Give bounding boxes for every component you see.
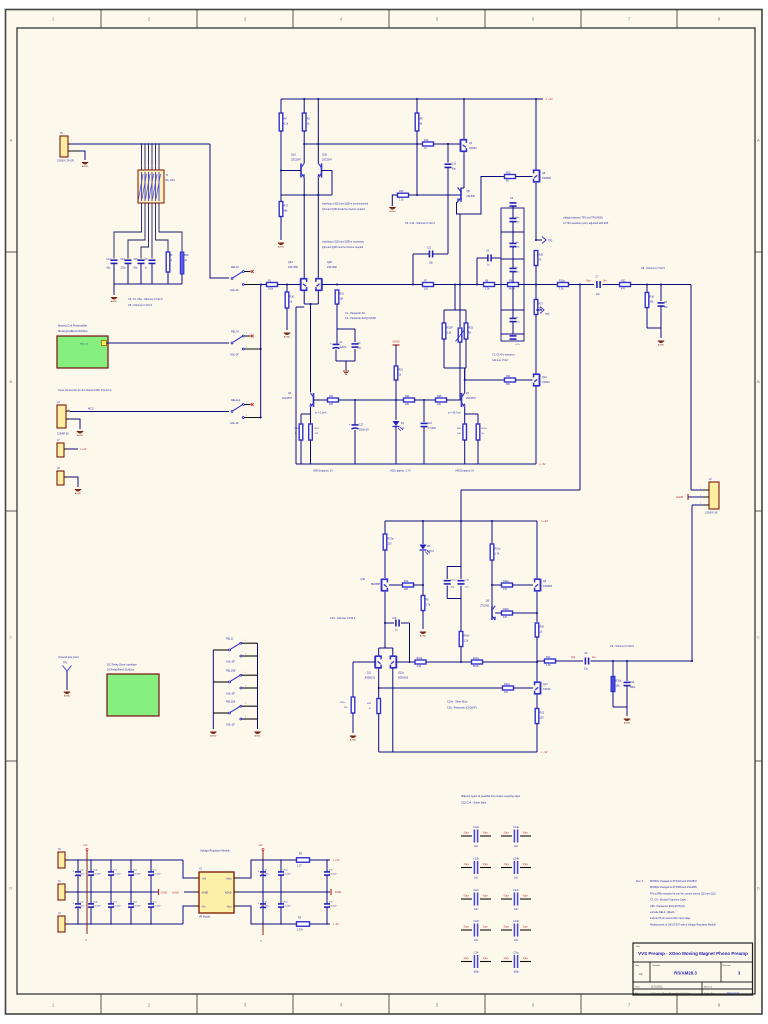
svg-text:C14d: C14d bbox=[513, 920, 519, 923]
svg-text:V(R20) approx 1V: V(R20) approx 1V bbox=[455, 470, 475, 473]
svg-text:C13: C13 bbox=[107, 259, 112, 261]
svg-text:AGND: AGND bbox=[392, 341, 399, 344]
svg-text:0(a)+: 0(a)+ bbox=[523, 832, 529, 834]
svg-text:Q13: Q13 bbox=[543, 683, 548, 686]
svg-text:470: 470 bbox=[504, 691, 509, 694]
svg-text:AGND: AGND bbox=[210, 735, 217, 738]
svg-text:R20a: R20a bbox=[482, 428, 488, 430]
svg-text:REL11A: REL11A bbox=[231, 399, 240, 402]
svg-text:0(a)+: 0(a)+ bbox=[586, 281, 592, 283]
svg-text:R22a: R22a bbox=[503, 580, 509, 583]
svg-text:R27: R27 bbox=[539, 303, 544, 306]
svg-text:Ground test point: Ground test point bbox=[58, 655, 79, 659]
svg-text:220p: 220p bbox=[121, 268, 127, 270]
svg-text:100: 100 bbox=[424, 288, 429, 291]
svg-text:0.775V operation point, adjust: 0.775V operation point, adjusted with R2… bbox=[563, 222, 609, 225]
svg-text:C16b: C16b bbox=[93, 902, 99, 904]
svg-text:R22: R22 bbox=[329, 395, 334, 398]
svg-text:Sheet of: Sheet of bbox=[704, 985, 713, 988]
svg-text:0(a)+: 0(a)+ bbox=[504, 864, 510, 866]
svg-text:0(a)+: 0(a)+ bbox=[523, 958, 529, 960]
svg-text:AGND: AGND bbox=[350, 739, 357, 742]
svg-text:1: 1 bbox=[245, 672, 246, 674]
svg-text:0(a)+: 0(a)+ bbox=[483, 832, 489, 834]
svg-text:0(a)+: 0(a)+ bbox=[464, 958, 470, 960]
svg-text:1.5u50V: 1.5u50V bbox=[283, 906, 291, 908]
svg-text:C16b: C16b bbox=[93, 870, 99, 872]
svg-text:C5 - Glimmer CY22.3: C5 - Glimmer CY22.3 bbox=[128, 304, 153, 307]
svg-text:2.2u50V: 2.2u50V bbox=[133, 874, 141, 876]
svg-text:4: 4 bbox=[246, 415, 247, 417]
svg-text:C12c: C12c bbox=[473, 889, 479, 892]
svg-text:AGND: AGND bbox=[389, 210, 396, 213]
svg-text:C10a: C10a bbox=[283, 902, 289, 904]
svg-text:C19 - Glimmer CY22.5: C19 - Glimmer CY22.5 bbox=[330, 617, 356, 620]
svg-text:10PV1: 10PV1 bbox=[427, 551, 435, 553]
svg-text:+Vb: +Vb bbox=[83, 844, 88, 847]
svg-text:4: 4 bbox=[245, 717, 246, 719]
svg-text:c +4V: c +4V bbox=[333, 859, 340, 862]
svg-text:C10a: C10a bbox=[283, 870, 289, 872]
svg-text:DC Relay Drive Interface: DC Relay Drive Interface bbox=[107, 662, 137, 666]
svg-text:0(a)+: 0(a)+ bbox=[504, 958, 510, 960]
svg-text:Ic = 66.7mA: Ic = 66.7mA bbox=[448, 412, 461, 415]
svg-text:2.27k: 2.27k bbox=[297, 929, 304, 932]
svg-text:10u: 10u bbox=[474, 845, 479, 848]
svg-text:1: 1 bbox=[246, 333, 247, 335]
svg-text:A2: A2 bbox=[639, 972, 643, 976]
svg-text:Input Connector for the Second: Input Connector for the Second MC Pre Am… bbox=[58, 388, 112, 392]
svg-text:Revision: Revision bbox=[723, 965, 732, 967]
svg-text:86.6k: 86.6k bbox=[473, 665, 480, 668]
svg-text:exclude REL9 - REL11: exclude REL9 - REL11 bbox=[650, 911, 675, 914]
svg-text:4: 4 bbox=[246, 347, 247, 349]
svg-text:2.2u50V: 2.2u50V bbox=[113, 906, 121, 908]
svg-text:AGND: AGND bbox=[420, 635, 427, 638]
svg-text:Q2A: Q2A bbox=[288, 261, 293, 264]
svg-text:0a+: 0a+ bbox=[603, 281, 608, 283]
svg-text:AGND: AGND bbox=[676, 496, 683, 499]
svg-text:V(R19) approx. 1V: V(R19) approx. 1V bbox=[313, 470, 333, 473]
svg-text:AGND: AGND bbox=[202, 892, 209, 895]
svg-text:D: D bbox=[9, 886, 12, 891]
svg-text:R7a & R8b excluded to turn the: R7a & R8b excluded to turn the current s… bbox=[650, 892, 716, 895]
svg-text:matching of Q2A and Q2B is nec: matching of Q2A and Q2B is necessary bbox=[322, 241, 365, 244]
svg-text:Number: Number bbox=[653, 964, 661, 967]
svg-text:AGND: AGND bbox=[172, 892, 179, 895]
svg-text:c +4V: c +4V bbox=[541, 519, 548, 523]
svg-text:Q14: Q14 bbox=[542, 376, 547, 379]
svg-text:matching of Q1A and Q1B is rec: matching of Q1A and Q1B is recommended bbox=[322, 203, 369, 206]
svg-text:R22b: R22b bbox=[503, 608, 509, 611]
svg-text:C: C bbox=[9, 635, 12, 640]
svg-text:REL11: REL11 bbox=[226, 638, 234, 641]
svg-text:BSDN103: BSDN103 bbox=[365, 678, 376, 680]
svg-text:MC Out: MC Out bbox=[80, 343, 88, 346]
svg-text:CON5-F 2F-GR: CON5-F 2F-GR bbox=[57, 160, 74, 163]
svg-text:C14b: C14b bbox=[513, 857, 519, 860]
svg-text:VR Module: VR Module bbox=[199, 917, 211, 919]
svg-text:B: B bbox=[9, 379, 12, 384]
svg-text:Q11: Q11 bbox=[367, 673, 372, 675]
svg-text:4: 4 bbox=[246, 282, 247, 284]
svg-text:220: 220 bbox=[405, 403, 410, 406]
svg-text:REL10B: REL10B bbox=[226, 670, 236, 673]
svg-text:0a+: 0a+ bbox=[592, 657, 597, 659]
svg-text:Q1A and Q1B should be thermo c: Q1A and Q1B should be thermo coupled bbox=[322, 208, 366, 211]
svg-text:10u: 10u bbox=[474, 908, 479, 911]
svg-text:AGND: AGND bbox=[225, 892, 232, 895]
svg-text:Q2A and Q2B must be thermo cou: Q2A and Q2B must be thermo coupled bbox=[322, 246, 364, 249]
svg-text:1M: 1M bbox=[340, 298, 343, 301]
svg-text:220u6.3V: 220u6.3V bbox=[359, 430, 369, 432]
svg-text:MovingCoilRev3.SchDoc: MovingCoilRev3.SchDoc bbox=[58, 329, 88, 333]
svg-text:TP2: TP2 bbox=[548, 240, 553, 243]
svg-text:voltage between TP2 and TP3 (R: voltage between TP2 and TP3 (R26): bbox=[563, 217, 603, 220]
svg-text:0(a)+: 0(a)+ bbox=[464, 864, 470, 866]
svg-text:BSDN103: BSDN103 bbox=[398, 678, 409, 680]
svg-text:4: 4 bbox=[245, 686, 246, 688]
svg-text:2SL635: 2SL635 bbox=[467, 195, 476, 198]
svg-text:Replacement of LM317/337 with: Replacement of LM317/337 with a Voltage … bbox=[650, 923, 716, 926]
svg-text:220: 220 bbox=[540, 717, 545, 720]
svg-text:REL7A: REL7A bbox=[231, 331, 239, 334]
svg-text:Q1A: Q1A bbox=[291, 154, 296, 157]
svg-text:BC560C changed to ZTX558 and 2: BC560C changed to ZTX558 and 2SA1085 bbox=[650, 886, 697, 889]
svg-text:C16 - Panasonic ECQ(GF): C16 - Panasonic ECQ(GF) bbox=[447, 707, 477, 710]
svg-text:1.7k: 1.7k bbox=[426, 604, 431, 607]
svg-text:REL10: REL10 bbox=[231, 266, 239, 269]
svg-text:0(a)+: 0(a)+ bbox=[464, 926, 470, 928]
svg-text:100p: 100p bbox=[473, 971, 479, 974]
svg-text:220: 220 bbox=[404, 588, 409, 591]
svg-text:2.2u50V: 2.2u50V bbox=[153, 906, 161, 908]
svg-text:+4V: +4V bbox=[258, 844, 263, 847]
svg-text:c -4V: c -4V bbox=[541, 750, 548, 754]
svg-text:D: D bbox=[757, 886, 760, 891]
svg-text:Q12a: Q12a bbox=[398, 673, 404, 675]
svg-text:R32: R32 bbox=[621, 279, 626, 282]
svg-text:R21a: R21a bbox=[495, 548, 501, 551]
svg-text:2SC2547: 2SC2547 bbox=[466, 397, 477, 400]
svg-text:R27a: R27a bbox=[340, 702, 346, 704]
svg-text:C17: C17 bbox=[359, 425, 364, 427]
svg-text:CON9F-2K: CON9F-2K bbox=[57, 433, 69, 436]
svg-text:Ic = 2.1mA: Ic = 2.1mA bbox=[315, 412, 327, 415]
svg-text:CON9 F-3K: CON9 F-3K bbox=[705, 512, 718, 515]
svg-text:R23: R23 bbox=[469, 327, 474, 330]
svg-text:C14c: C14c bbox=[513, 889, 519, 892]
svg-text:1: 1 bbox=[245, 703, 246, 705]
svg-text:0(a)+: 0(a)+ bbox=[523, 926, 529, 928]
svg-text:C10: C10 bbox=[630, 682, 635, 684]
svg-text:1: 1 bbox=[245, 640, 246, 642]
svg-text:2SK746K: 2SK746K bbox=[327, 266, 338, 269]
svg-text:C18: C18 bbox=[428, 423, 433, 425]
svg-text:R24: R24 bbox=[405, 395, 410, 398]
svg-text:R11: R11 bbox=[340, 293, 345, 296]
svg-text:R10: R10 bbox=[290, 296, 295, 299]
svg-text:RF_JW1: RF_JW1 bbox=[166, 179, 176, 182]
svg-text:R23P: R23P bbox=[447, 327, 453, 330]
svg-text:R31: R31 bbox=[506, 375, 511, 378]
svg-text:R14: R14 bbox=[404, 580, 409, 583]
svg-text:C15a: C15a bbox=[451, 580, 457, 582]
svg-text:GAL-2F: GAL-2F bbox=[226, 724, 235, 727]
svg-text:0(a)+: 0(a)+ bbox=[483, 926, 489, 928]
svg-text:MC2: MC2 bbox=[88, 407, 94, 411]
svg-text:0(a)+: 0(a)+ bbox=[464, 895, 470, 897]
svg-text:C12,C14 - Silver Mica: C12,C14 - Silver Mica bbox=[461, 801, 487, 805]
svg-text:GAL-2F: GAL-2F bbox=[230, 289, 239, 292]
svg-text:1.2k: 1.2k bbox=[399, 198, 404, 201]
svg-text:Q10: Q10 bbox=[360, 578, 365, 581]
svg-text:Λ: Λ bbox=[85, 938, 87, 942]
svg-text:R5b: R5b bbox=[185, 255, 190, 257]
svg-text:4: 4 bbox=[245, 654, 246, 656]
svg-text:1.5u50V: 1.5u50V bbox=[283, 874, 291, 876]
svg-text:KSP40: KSP40 bbox=[542, 381, 550, 384]
svg-text:C12d: C12d bbox=[473, 920, 479, 923]
svg-text:R25: R25 bbox=[437, 395, 442, 398]
svg-text:R17: R17 bbox=[284, 205, 289, 208]
svg-text:+Vin: +Vin bbox=[202, 879, 207, 881]
svg-text:-Vout: -Vout bbox=[226, 906, 232, 909]
svg-text:C98 - Panasonic ECQ ECHU(X): C98 - Panasonic ECQ ECHU(X) bbox=[650, 905, 685, 908]
svg-text:2.2u50V: 2.2u50V bbox=[93, 906, 101, 908]
svg-text:R12a: R12a bbox=[473, 657, 479, 660]
svg-text:2SC2547: 2SC2547 bbox=[291, 159, 302, 162]
svg-text:AGND: AGND bbox=[111, 300, 118, 303]
svg-text:GAL-2F: GAL-2F bbox=[230, 354, 239, 357]
svg-text:KSP40: KSP40 bbox=[543, 688, 551, 691]
svg-text:BSR58P: BSR58P bbox=[371, 583, 381, 586]
svg-text:AGND: AGND bbox=[75, 492, 82, 495]
svg-text:R13a: R13a bbox=[559, 279, 565, 282]
svg-text:0(a)+: 0(a)+ bbox=[483, 958, 489, 960]
svg-text:C12b: C12b bbox=[473, 857, 479, 860]
svg-text:220: 220 bbox=[329, 403, 334, 406]
svg-text:2.2u50V: 2.2u50V bbox=[113, 874, 121, 876]
svg-text:AGND: AGND bbox=[658, 344, 665, 347]
svg-text:470: 470 bbox=[503, 588, 508, 591]
svg-text:R26: R26 bbox=[539, 254, 544, 257]
svg-text:C3, C4, C5a - Glimmer CY22.2: C3, C4, C5a - Glimmer CY22.2 bbox=[128, 298, 163, 301]
svg-text:0(a)+: 0(a)+ bbox=[523, 864, 529, 866]
svg-text:TP3: TP3 bbox=[545, 313, 550, 316]
svg-text:ZTX2N5: ZTX2N5 bbox=[480, 605, 490, 608]
svg-text:R21: R21 bbox=[399, 369, 404, 372]
svg-text:AGND: AGND bbox=[161, 892, 168, 895]
svg-text:DCRelayRev3.SchDoc: DCRelayRev3.SchDoc bbox=[107, 668, 135, 672]
svg-text:KSD965: KSD965 bbox=[543, 585, 553, 588]
svg-text:R12: R12 bbox=[424, 139, 429, 142]
svg-text:AGND: AGND bbox=[284, 336, 291, 339]
svg-text:2SC2547: 2SC2547 bbox=[282, 397, 293, 400]
svg-text:100p: 100p bbox=[513, 971, 519, 974]
svg-text:B: B bbox=[757, 379, 760, 384]
svg-text:1.5k: 1.5k bbox=[485, 288, 490, 291]
svg-text:include P6 for second MC input: include P6 for second MC input stage bbox=[650, 917, 691, 920]
svg-text:C14: C14 bbox=[474, 951, 479, 954]
svg-text:0(a)+: 0(a)+ bbox=[483, 895, 489, 897]
svg-text:Rev. 3: Rev. 3 bbox=[636, 880, 644, 883]
svg-text:C14: C14 bbox=[121, 259, 126, 261]
svg-text:1u50V: 1u50V bbox=[340, 347, 347, 349]
svg-text:R16: R16 bbox=[650, 296, 655, 299]
svg-text:2SK746K: 2SK746K bbox=[288, 266, 299, 269]
svg-text:100: 100 bbox=[437, 403, 442, 406]
svg-text:R19a: R19a bbox=[295, 428, 301, 430]
svg-text:c +4V: c +4V bbox=[80, 448, 87, 451]
svg-text:Voltage Regulator Module: Voltage Regulator Module bbox=[200, 849, 230, 853]
svg-text:0(a)+: 0(a)+ bbox=[483, 864, 489, 866]
svg-text:AGND: AGND bbox=[64, 695, 71, 698]
svg-text:1.5k: 1.5k bbox=[417, 665, 422, 668]
svg-text:220: 220 bbox=[388, 543, 393, 546]
svg-text:R31: R31 bbox=[540, 712, 545, 715]
svg-text:c -4V: c -4V bbox=[539, 462, 546, 466]
svg-text:21.01.2012: 21.01.2012 bbox=[651, 986, 663, 988]
svg-text:Q1B: Q1B bbox=[322, 154, 327, 157]
svg-text:KSD965: KSD965 bbox=[542, 177, 552, 180]
svg-text:C1 - Panasonic SC: C1 - Panasonic SC bbox=[345, 312, 366, 315]
svg-text:C5, C13 - Glimmer CY22.2: C5, C13 - Glimmer CY22.2 bbox=[405, 222, 435, 225]
svg-text:AGND: AGND bbox=[254, 735, 261, 738]
svg-text:680: 680 bbox=[506, 383, 511, 386]
svg-text:2.2k: 2.2k bbox=[447, 332, 452, 335]
svg-text:c -4V: c -4V bbox=[333, 923, 339, 926]
svg-text:R20b: R20b bbox=[464, 635, 470, 638]
svg-text:AGND: AGND bbox=[77, 434, 84, 437]
svg-text:R16a: R16a bbox=[417, 657, 423, 660]
svg-text:c +4V: c +4V bbox=[546, 97, 553, 101]
svg-text:Q2B: Q2B bbox=[327, 261, 332, 264]
svg-text:R30a: R30a bbox=[504, 683, 510, 686]
svg-text:2SC2547: 2SC2547 bbox=[322, 159, 333, 162]
svg-text:470: 470 bbox=[621, 288, 626, 291]
svg-text:C7, C9 - Mundorf Supreme Caps: C7, C9 - Mundorf Supreme Caps bbox=[650, 899, 686, 902]
svg-text:C: C bbox=[757, 635, 760, 640]
svg-text:A: A bbox=[757, 138, 760, 143]
svg-text:R30: R30 bbox=[540, 626, 545, 629]
svg-text:2.2u50V: 2.2u50V bbox=[93, 874, 101, 876]
svg-text:1: 1 bbox=[246, 269, 247, 271]
svg-text:R13: R13 bbox=[546, 656, 551, 659]
svg-text:1.5k: 1.5k bbox=[546, 664, 551, 667]
svg-text:C8 - Glimmer CY22.5: C8 - Glimmer CY22.5 bbox=[641, 267, 666, 270]
svg-text:1.7k: 1.7k bbox=[495, 553, 500, 556]
svg-text:Drawn By:: Drawn By: bbox=[704, 992, 714, 995]
svg-text:10u: 10u bbox=[474, 877, 479, 880]
svg-text:2.2u50V: 2.2u50V bbox=[153, 874, 161, 876]
svg-text:1: 1 bbox=[246, 402, 247, 404]
svg-text:C16c: C16c bbox=[513, 951, 519, 954]
svg-text:C:\Users\..\MovingMagnetRev3.S: C:\Users\..\MovingMagnetRev3.SchDoc bbox=[651, 992, 691, 995]
svg-text:C12a: C12a bbox=[473, 826, 479, 829]
svg-text:V(D1) approx. 1.7V: V(D1) approx. 1.7V bbox=[390, 470, 411, 473]
svg-text:10u: 10u bbox=[514, 908, 519, 911]
svg-text:AGND: AGND bbox=[82, 165, 89, 168]
svg-text:C2 - Panasonic ECQ(U(X)NF: C2 - Panasonic ECQ(U(X)NF bbox=[345, 317, 377, 320]
svg-text:RS/AM28.3: RS/AM28.3 bbox=[674, 971, 697, 976]
svg-text:R17a: R17a bbox=[388, 538, 394, 541]
svg-text:GAL-2F: GAL-2F bbox=[230, 422, 239, 425]
svg-text:Roger Gust: Roger Gust bbox=[727, 992, 740, 995]
svg-text:1.5k: 1.5k bbox=[559, 288, 564, 291]
svg-text:6.2k: 6.2k bbox=[284, 123, 289, 126]
svg-text:2.2u50V: 2.2u50V bbox=[133, 906, 141, 908]
svg-text:10u: 10u bbox=[514, 845, 519, 848]
svg-text:C1, C6 47u tolerance: C1, C6 47u tolerance bbox=[492, 354, 515, 357]
svg-text:1.5u50V: 1.5u50V bbox=[329, 906, 337, 908]
svg-text:0(a)+: 0(a)+ bbox=[504, 832, 510, 834]
svg-text:Moving Coil Preamplifier: Moving Coil Preamplifier bbox=[58, 324, 87, 328]
svg-text:C13: C13 bbox=[452, 164, 457, 166]
svg-text:+Vout: +Vout bbox=[226, 878, 232, 881]
svg-text:1.5u50V: 1.5u50V bbox=[329, 874, 337, 876]
svg-text:0(a)+: 0(a)+ bbox=[504, 926, 510, 928]
svg-text:100k: 100k bbox=[268, 288, 274, 291]
svg-text:R15: R15 bbox=[399, 190, 404, 193]
svg-text:10u: 10u bbox=[514, 877, 519, 880]
svg-text:2.2k: 2.2k bbox=[464, 640, 469, 643]
svg-text:GAL-2F: GAL-2F bbox=[226, 693, 235, 696]
svg-text:R13: R13 bbox=[506, 171, 511, 174]
svg-text:4.7u63V: 4.7u63V bbox=[428, 428, 437, 430]
svg-text:0(a)+: 0(a)+ bbox=[523, 895, 529, 897]
svg-text:10u: 10u bbox=[474, 939, 479, 942]
svg-text:C14a: C14a bbox=[513, 826, 519, 829]
svg-text:KSP94: KSP94 bbox=[469, 147, 477, 150]
svg-text:AGND: AGND bbox=[624, 722, 631, 725]
svg-text:R15a: R15a bbox=[616, 680, 622, 683]
svg-text:BC550C changed to ZTX109 and 2: BC550C changed to ZTX109 and 2SC2547 bbox=[650, 880, 698, 883]
svg-text:C16a - Silver Mica: C16a - Silver Mica bbox=[447, 701, 468, 704]
svg-text:10u: 10u bbox=[514, 939, 519, 942]
svg-text:REL11B: REL11B bbox=[226, 701, 235, 704]
svg-text:C9 - Glimmer CY22.5: C9 - Glimmer CY22.5 bbox=[610, 645, 635, 648]
svg-text:0(a): 0(a) bbox=[571, 657, 575, 659]
svg-text:A: A bbox=[9, 138, 12, 143]
svg-text:Λ: Λ bbox=[260, 939, 262, 943]
svg-text:Date: Date bbox=[635, 985, 640, 988]
svg-text:Glimmer CY22: Glimmer CY22 bbox=[492, 359, 508, 362]
svg-text:470: 470 bbox=[503, 616, 508, 619]
svg-text:2.2?: 2.2? bbox=[297, 865, 302, 868]
svg-text:0(a)+: 0(a)+ bbox=[504, 895, 510, 897]
svg-text:GAL-2F: GAL-2F bbox=[226, 661, 235, 664]
svg-text:different types of possible 10: different types of possible 10u output c… bbox=[461, 794, 521, 798]
svg-text:AGND: AGND bbox=[278, 246, 285, 249]
svg-text:C15: C15 bbox=[134, 259, 139, 261]
svg-text:AGND: AGND bbox=[335, 891, 342, 894]
svg-text:680p: 680p bbox=[630, 687, 636, 689]
svg-text:86.6k: 86.6k bbox=[509, 288, 516, 291]
svg-text:TP1: TP1 bbox=[63, 662, 68, 665]
svg-text:0(a)+: 0(a)+ bbox=[464, 832, 470, 834]
svg-text:VVS Preamp - XOno Moving Magne: VVS Preamp - XOno Moving Magnet Phono Pr… bbox=[638, 951, 748, 956]
